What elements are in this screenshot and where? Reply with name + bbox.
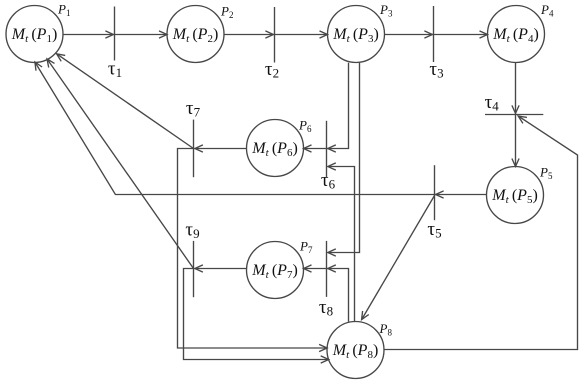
transition tau4 (bar) [485, 114, 543, 116]
svg-text:P7: P7 [299, 239, 313, 256]
svg-text:P8: P8 [379, 321, 393, 338]
label tau9 [185, 220, 199, 242]
svg-text:Mt (P1): Mt (P1) [11, 26, 58, 45]
wire P8 right, up, diagonal into tau4 (feedback) [384, 116, 578, 350]
svg-text:τ4: τ4 [485, 92, 500, 114]
node label P3 [379, 2, 393, 19]
label tau2 [265, 59, 279, 81]
place P2 (circle) [167, 6, 224, 63]
label tau6 [321, 170, 336, 192]
place P3 (circle) [328, 6, 385, 63]
label tau7 [186, 98, 201, 120]
node label P2 [220, 3, 233, 20]
wire P6 left into tau7 then down and right into P8 [178, 145, 328, 352]
svg-text:τ3: τ3 [429, 59, 443, 81]
transition tau9 (bar) [193, 241, 195, 297]
node label P4 [540, 2, 554, 19]
wire P8 up, left through tau8 into P7 [304, 265, 349, 322]
svg-text:τ7: τ7 [186, 98, 201, 120]
label tau1 [108, 59, 122, 81]
marking label M_t(P4) [492, 26, 539, 45]
svg-text:Mt (P4): Mt (P4) [492, 26, 539, 45]
svg-text:Mt (P3): Mt (P3) [332, 26, 379, 45]
marking label M_t(P2) [172, 26, 219, 45]
wire P7 left into tau9 then down and right into P8 [184, 265, 329, 363]
svg-text:τ6: τ6 [321, 170, 336, 192]
wire P2 to tau2 to P3 [224, 31, 328, 38]
node label P1 [57, 2, 70, 19]
wire tau9 diagonal up to P1 [47, 59, 194, 269]
svg-text:P2: P2 [220, 3, 233, 20]
svg-text:τ5: τ5 [427, 219, 441, 241]
wire P3 to tau3 to P4 [385, 31, 488, 38]
transition tau2 (bar) [274, 7, 276, 63]
marking label M_t(P3) [332, 26, 379, 45]
label tau5 [427, 219, 441, 241]
transition tau5 (bar) [434, 165, 436, 220]
svg-text:P4: P4 [540, 2, 554, 19]
node label P7 [299, 239, 313, 256]
place P6 (circle) [247, 120, 304, 177]
svg-text:Mt (P2): Mt (P2) [172, 26, 219, 45]
svg-text:P6: P6 [298, 118, 312, 135]
svg-text:τ8: τ8 [319, 297, 333, 319]
wire P3 down then left into tau8 [328, 63, 360, 256]
marking label M_t(P5) [491, 187, 538, 206]
transition tau8 (bar) [326, 241, 328, 297]
wire tau5 diagonal down to P8 [362, 196, 435, 320]
svg-text:Mt (P7): Mt (P7) [251, 262, 298, 281]
wire P8 up then left into tau6 [328, 163, 355, 322]
marking label M_t(P8) [332, 342, 379, 361]
wire tau7 diagonal up to P1 [57, 54, 194, 149]
label tau3 [429, 59, 443, 81]
svg-text:τ1: τ1 [108, 59, 122, 81]
wire P5 left through tau5 then diagonal up to P1 [35, 62, 487, 198]
marking label M_t(P6) [251, 140, 298, 159]
node label P5 [539, 164, 553, 181]
svg-text:Mt (P5): Mt (P5) [491, 187, 538, 206]
svg-text:τ2: τ2 [265, 59, 279, 81]
svg-text:P5: P5 [539, 164, 553, 181]
svg-text:P1: P1 [57, 2, 70, 19]
svg-text:P3: P3 [379, 2, 393, 19]
label tau8 [319, 297, 333, 319]
transition tau7 (bar) [193, 120, 195, 178]
transition tau3 (bar) [433, 6, 435, 62]
place P5 (circle) [487, 167, 544, 224]
node label P8 [379, 321, 393, 338]
wire P3 down, left through tau6 into P6 [304, 63, 349, 152]
transition tau6 (bar) [326, 121, 328, 178]
place P7 (circle) [247, 242, 304, 299]
place P1 (circle) [6, 6, 63, 63]
node label P6 [298, 118, 312, 135]
svg-text:Mt (P8): Mt (P8) [332, 342, 379, 361]
label tau4 [485, 92, 500, 114]
place P8 (circle) [327, 322, 384, 379]
svg-text:τ9: τ9 [185, 220, 199, 242]
place P4 (circle) [488, 6, 545, 63]
svg-text:Mt (P6): Mt (P6) [251, 140, 298, 159]
transition tau1 (bar) [114, 7, 116, 61]
marking label M_t(P7) [251, 262, 298, 281]
marking label M_t(P1) [11, 26, 58, 45]
wire P4 down to tau4 to P5 (vertical arc) [512, 63, 519, 167]
wire P1 to tau1 to P2 (horizontal arc with arrowheads at tau1 and P2) [63, 31, 167, 38]
